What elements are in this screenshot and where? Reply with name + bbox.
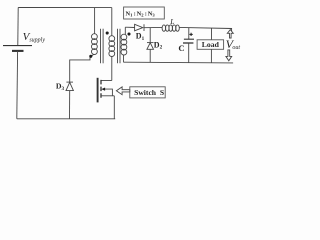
capacitor C bottom plate: [183, 42, 193, 44]
label capacitor plus polarity: [190, 33, 193, 36]
svg-text:out: out: [232, 45, 240, 51]
label N1 : N2 : N3: [126, 10, 156, 17]
node N2 polarity dot: [106, 31, 109, 34]
svg-text:N1: N1: [126, 10, 134, 17]
wire N2 top lead: [111, 8, 113, 36]
svg-text:Switch S: Switch S: [134, 88, 164, 97]
transistor Q MOSFET drain stub: [101, 80, 112, 82]
wire D1 cathode to inductor L: [144, 26, 162, 28]
arrow annotation switch (hollow, points left): [116, 87, 129, 95]
wire capacitor bottom lead: [188, 43, 190, 63]
svg-text:Load: Load: [202, 40, 220, 49]
wire bottom rail left circuit: [17, 118, 115, 120]
wire N2 bottom lead to MOSFET drain: [111, 57, 113, 81]
svg-text:Vsupply: Vsupply: [23, 31, 46, 44]
battery Vsupply top plate: [3, 45, 32, 47]
wire battery negative lead: [16, 51, 19, 119]
transistor Q body arrow: [105, 89, 113, 96]
wire N3 bottom lead: [123, 55, 125, 62]
svg-text:D3: D3: [56, 82, 65, 92]
switch S box: [130, 87, 165, 98]
wire source to bottom rail: [113, 96, 115, 119]
wire output bottom rail: [124, 61, 234, 64]
wire top rail left circuit: [18, 7, 112, 9]
wire D2 cathode lead: [149, 28, 151, 43]
diode D3: [66, 82, 73, 90]
svg-text:L: L: [169, 17, 174, 26]
svg-text::: :: [145, 10, 147, 17]
diode D2: [147, 42, 154, 44]
transformer winding N3: [121, 34, 127, 55]
svg-text:D1: D1: [136, 32, 145, 42]
svg-text:D2: D2: [154, 40, 163, 50]
svg-text:C: C: [178, 43, 184, 53]
wire D3 anode lead: [69, 91, 71, 119]
wire L to output positive rail: [179, 27, 231, 31]
diode D1: [135, 24, 143, 31]
wire load bottom lead: [210, 49, 212, 62]
battery Vsupply bottom plate: [12, 50, 24, 52]
node W1 polarity dot: [89, 55, 92, 58]
load box: [197, 40, 224, 50]
arrow Vout minus (down): [226, 50, 232, 61]
wire load top lead: [211, 28, 213, 40]
transformer core: [101, 29, 121, 64]
arrow Vout plus (up): [227, 30, 233, 38]
svg-text:N2: N2: [137, 10, 145, 17]
wire N1 top lead: [94, 8, 96, 34]
svg-text:N3: N3: [148, 10, 156, 17]
wire N3 to D1 anode: [125, 26, 134, 28]
inductor L: [162, 25, 179, 31]
capacitor C top plate: [184, 38, 194, 40]
transistor Q gate bar: [97, 78, 99, 103]
transformer winding N2: [109, 36, 115, 57]
transformer winding N1: [92, 34, 98, 55]
wire battery positive lead: [17, 8, 19, 46]
wire N3 top lead: [124, 27, 126, 34]
wire capacitor top lead: [188, 28, 190, 39]
svg-text::: :: [134, 10, 136, 17]
wire D3 cathode to W1 bottom: [70, 54, 94, 82]
node N3 polarity dot: [127, 32, 130, 35]
label N ratio box: [124, 7, 165, 19]
transistor Q source stub: [101, 95, 114, 97]
transistor Q channel bars: [100, 80, 102, 98]
wire D2 anode lead: [149, 49, 151, 62]
